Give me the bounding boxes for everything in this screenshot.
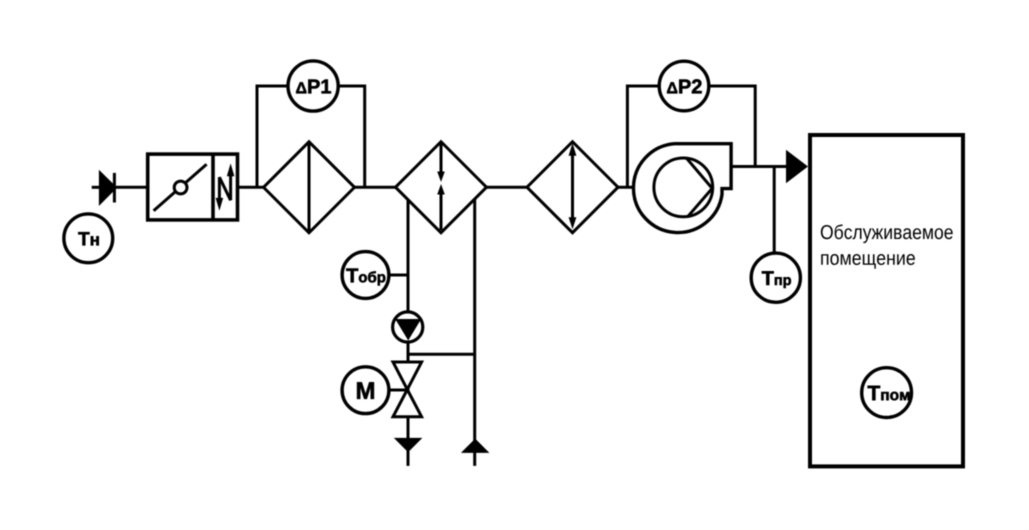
wire: filter F2 to fan <box>618 186 639 189</box>
pipe: heater return (left) <box>407 199 410 466</box>
fan impeller blades <box>686 158 712 217</box>
valve V1 (two-way control valve) <box>393 362 422 390</box>
fan impeller circle <box>654 158 713 217</box>
sensor Тобр (return water temperature) <box>388 274 408 277</box>
wire: heater to filter F2 <box>487 186 528 189</box>
air damper box <box>148 154 238 220</box>
damper blade diagonal <box>154 164 207 211</box>
pump P1 <box>393 312 423 342</box>
sensor Тн (outdoor temperature) <box>64 214 113 263</box>
supply air arrow <box>788 153 806 180</box>
filter F2 (third diamond) <box>527 142 618 233</box>
heater arrows (two opposing) <box>437 144 445 230</box>
room (serviced premises) <box>810 135 963 466</box>
wire: fan outlet <box>731 165 789 168</box>
supply flow arrow (up) <box>461 439 490 453</box>
pipe: heater supply (right) <box>473 199 476 466</box>
dP sensor ΔP2 <box>659 61 709 111</box>
dP sensor ΔP1 tap left <box>257 86 288 187</box>
room label <box>821 224 953 243</box>
valve actuator link <box>389 389 408 392</box>
check valve (intake air arrow) <box>100 173 115 202</box>
wire: Тпр tap <box>773 167 776 254</box>
wire: intake to check valve <box>92 186 102 189</box>
sensor Тпом (room temperature) <box>862 368 912 418</box>
filter F2 double arrow <box>569 143 577 229</box>
dP sensor ΔP2 tap left <box>627 86 659 187</box>
dP sensor ΔP1 <box>288 61 338 111</box>
fan M1 housing <box>633 144 731 233</box>
sensor Тпр (supply temperature) <box>751 253 800 302</box>
dP sensor ΔP2 tap right <box>709 86 756 167</box>
check valve seat bar <box>113 173 116 203</box>
wire: damper to filter F1 <box>238 186 264 189</box>
return flow arrow (down) <box>394 438 423 452</box>
dP sensor ΔP1 tap right <box>338 86 365 187</box>
damper divider <box>211 154 215 220</box>
heater W1 (second diamond) <box>396 142 487 233</box>
filter F1 (first diamond) <box>264 142 355 233</box>
wire: filter F1 to heater <box>355 186 396 189</box>
damper actuator N symbol <box>216 163 235 210</box>
valve actuator М <box>342 367 389 414</box>
damper pivot circle <box>174 181 187 194</box>
wire: check valve to damper <box>116 186 148 189</box>
filter F1 media line <box>308 142 311 233</box>
pipe: bypass junction <box>408 353 475 356</box>
